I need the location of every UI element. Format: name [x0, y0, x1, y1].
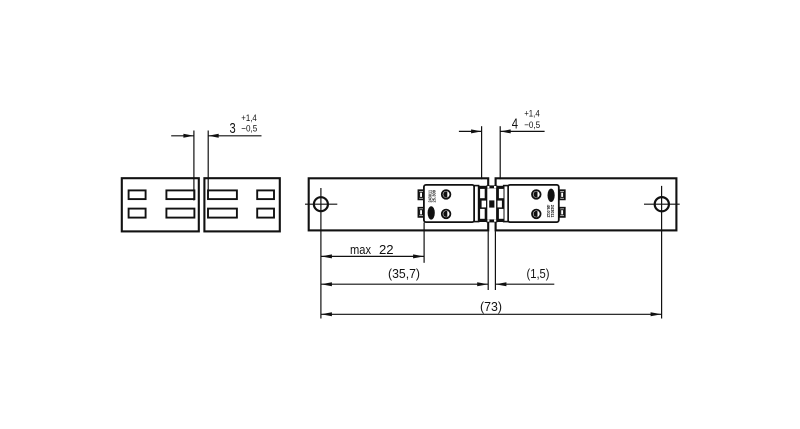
svg-text:(35,7): (35,7): [388, 266, 420, 281]
svg-text:46.012: 46.012: [545, 205, 551, 218]
svg-text:max: max: [350, 242, 371, 257]
svg-text:(73): (73): [480, 299, 502, 314]
svg-text:−0,5: −0,5: [241, 123, 257, 134]
svg-text:+1,4: +1,4: [241, 113, 256, 124]
svg-text:4: 4: [512, 117, 518, 133]
svg-text:(1,5): (1,5): [527, 266, 550, 281]
svg-text:−0,5: −0,5: [524, 120, 540, 131]
svg-text:22: 22: [379, 242, 394, 257]
svg-text:25.309: 25.309: [431, 190, 437, 203]
svg-text:+1,4: +1,4: [524, 109, 540, 120]
svg-text:3: 3: [230, 121, 236, 137]
